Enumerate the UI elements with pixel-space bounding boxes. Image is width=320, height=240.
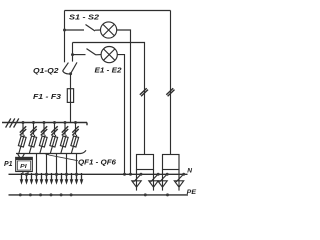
wire QF output 6 bbox=[76, 154, 78, 175]
node box1 right N junction bbox=[157, 173, 160, 176]
N bus bbox=[9, 173, 188, 175]
wire S2 to lamp E2 bbox=[96, 54, 101, 56]
conductor-count hatch QF5 bbox=[62, 126, 68, 135]
switch Q1 link bbox=[63, 71, 71, 74]
svg-text:PE: PE bbox=[187, 189, 197, 196]
wire QF6 stub bbox=[75, 123, 77, 135]
node QF2 bus junction bbox=[32, 121, 35, 124]
PE bus junction dots bbox=[19, 193, 169, 196]
conductor-count hatch QF3 bbox=[41, 126, 47, 135]
feeder arrow 8 bbox=[56, 173, 58, 180]
feeder arrow 10 bbox=[66, 173, 68, 180]
feeder arrow 7 bbox=[51, 173, 53, 180]
wire right riser to box2 bbox=[170, 11, 172, 155]
lamp E1 bbox=[101, 22, 117, 38]
conductor-count hatch QF6 bbox=[72, 126, 78, 135]
feeder arrow 5 bbox=[41, 173, 43, 180]
breaker-fuse QF4 bbox=[50, 136, 58, 147]
conductor-count hatch QF4 bbox=[51, 126, 57, 135]
wire box2 left N tap slash bbox=[160, 174, 168, 183]
distribution column QF4 bbox=[50, 121, 58, 154]
node E1 return on N bus bbox=[129, 173, 132, 176]
wire box1 left drop bbox=[136, 170, 138, 188]
wire box1 right drop bbox=[153, 170, 155, 188]
wire QF output 2 bbox=[36, 154, 38, 175]
feeder arrow 11 bbox=[71, 173, 73, 180]
feeder arrow 1 bbox=[21, 173, 23, 180]
switch S2 bbox=[87, 49, 97, 55]
feeder arrow 12 bbox=[76, 173, 78, 180]
breaker-fuse QF3 bbox=[39, 136, 47, 147]
feeder arrows group bbox=[20, 154, 84, 185]
wire QF output 5 bbox=[66, 154, 68, 175]
feeder arrow 6 bbox=[46, 173, 48, 180]
conductor hatch on right riser bbox=[166, 88, 174, 96]
wire top line bbox=[65, 10, 171, 12]
conductor hatch on box1 feed bbox=[140, 88, 148, 96]
svg-text:F1 - F3: F1 - F3 bbox=[33, 94, 61, 101]
feeder arrow 9 bbox=[61, 173, 63, 180]
N bus junction dots bbox=[25, 173, 78, 176]
lamp E2 bbox=[101, 47, 117, 63]
wire QF1 diagonal bbox=[19, 135, 24, 154]
distribution column QF5 bbox=[60, 121, 68, 154]
wire box1 right N tap slash bbox=[151, 174, 159, 183]
switch S1 bbox=[86, 25, 96, 32]
PE bus bbox=[9, 194, 189, 196]
node box2 right N junction bbox=[182, 173, 185, 176]
wire S1 to lamp E1 bbox=[95, 29, 101, 31]
wire left riser (Q1 pole to S1/S2 top) bbox=[64, 11, 66, 63]
switch Q2 blade bbox=[71, 62, 78, 73]
box2 left outgoing bbox=[158, 170, 169, 191]
feeder arrow 13 bbox=[81, 173, 83, 180]
wire box1 left stub bbox=[136, 187, 138, 190]
wire box1 left N tap slash bbox=[134, 174, 142, 183]
node E2 return on N bus bbox=[123, 173, 126, 176]
feeder arrow 4 bbox=[36, 173, 38, 180]
distribution column QF6 bbox=[71, 121, 79, 154]
box1 left outgoing bbox=[132, 170, 143, 191]
svg-text:S1 - S2: S1 - S2 bbox=[69, 15, 99, 22]
wire QF3 diagonal bbox=[40, 135, 45, 154]
feeder arrow 3 bbox=[31, 173, 33, 180]
wire QF4 diagonal bbox=[50, 135, 55, 154]
wire QF1 stub bbox=[22, 123, 24, 135]
wire box1 feed (pole2 top to box1) bbox=[73, 43, 145, 155]
wire QF4 stub bbox=[54, 123, 56, 135]
node QF3 bus junction bbox=[43, 121, 46, 124]
wire S1 line bbox=[65, 29, 85, 31]
node QF5 bus junction bbox=[64, 121, 67, 124]
outgoing feeder triangle box1 right bbox=[149, 181, 158, 187]
outgoing feeder triangle box2 left bbox=[158, 181, 167, 187]
breaker-fuse QF5 bbox=[60, 136, 68, 147]
wire QF6 diagonal bbox=[71, 135, 76, 154]
node S2 tap bbox=[71, 53, 74, 56]
switch Q1 blade bbox=[63, 63, 69, 71]
feeder arrow 2 bbox=[26, 173, 28, 180]
node box2 left N junction bbox=[166, 173, 169, 176]
node QF6 bus junction bbox=[74, 121, 77, 124]
wire box2 left stub bbox=[162, 187, 164, 190]
box1 apartment panel bbox=[137, 155, 154, 170]
outgoing feeder triangle box2 right bbox=[174, 181, 183, 187]
svg-text:P1: P1 bbox=[4, 161, 13, 168]
svg-text:E1 - E2: E1 - E2 bbox=[95, 67, 122, 74]
outgoing feeder triangle box1 left bbox=[132, 181, 141, 187]
wire QF output 3 bbox=[46, 154, 48, 175]
svg-text:QF1 - QF6: QF1 - QF6 bbox=[78, 158, 117, 167]
svg-text:Q1-Q2: Q1-Q2 bbox=[33, 68, 59, 75]
box1 right outgoing bbox=[149, 170, 160, 191]
wire box1 right stub bbox=[153, 187, 155, 190]
wire S2 line bbox=[73, 54, 86, 56]
breaker-fuse QF6 bbox=[71, 136, 79, 147]
label leader QF1-QF6 bbox=[45, 154, 78, 161]
wire main bus bbox=[2, 123, 87, 126]
wire lamp E1 return bbox=[117, 30, 131, 174]
wire Q join to fuse and bus bbox=[70, 74, 72, 123]
distribution column QF3 bbox=[39, 121, 47, 154]
wire QF5 diagonal bbox=[61, 135, 66, 154]
meter input stubs bbox=[18, 154, 25, 158]
svg-text:N: N bbox=[187, 168, 192, 175]
box2 right outgoing bbox=[174, 170, 185, 191]
node QF4 bus junction bbox=[53, 121, 56, 124]
node QF1 bus junction bbox=[22, 121, 25, 124]
distribution column QF1 bbox=[18, 121, 26, 154]
node Q1-Q2 join bbox=[69, 72, 72, 75]
wire lamp E2 return bbox=[117, 55, 124, 175]
conductor-count hatch QF1 bbox=[20, 126, 26, 135]
wire meter outputs bbox=[23, 172, 28, 175]
wire QF output 4 bbox=[56, 154, 58, 175]
node box1 left N junction bbox=[140, 173, 143, 176]
node S1 tap bbox=[63, 29, 66, 32]
wire QF3 stub bbox=[43, 123, 45, 135]
svg-text:PI: PI bbox=[20, 164, 27, 170]
wire QF2 diagonal bbox=[29, 135, 34, 154]
wire Q2 pole bbox=[72, 43, 74, 62]
wire box2 right drop bbox=[178, 170, 180, 188]
conductor-count hatch QF2 bbox=[30, 126, 36, 135]
breaker-fuse QF1 bbox=[18, 136, 26, 147]
breaker-fuse QF2 bbox=[29, 136, 37, 147]
wire box2 right N tap slash bbox=[176, 174, 184, 183]
wire QF2 stub bbox=[33, 123, 35, 135]
box2 apartment panel bbox=[163, 155, 180, 170]
meter P1 box bbox=[16, 157, 33, 171]
wire box2 right stub bbox=[178, 187, 180, 190]
distribution column QF2 bbox=[29, 121, 37, 154]
wire box2 left drop bbox=[162, 170, 164, 188]
3-phase marks bbox=[6, 118, 19, 127]
fuse F1-F3 bbox=[67, 89, 73, 103]
wire QF5 stub bbox=[64, 123, 66, 135]
wire QF output line bbox=[16, 150, 86, 153]
